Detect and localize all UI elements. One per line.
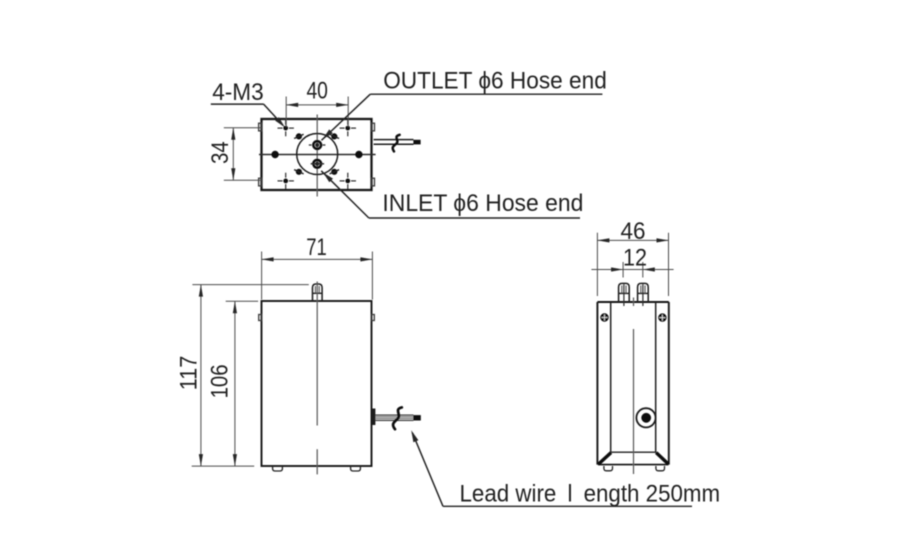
top view outlet port [309,141,326,149]
top view M3 hole top-right [340,120,356,136]
dimension 71 [262,234,373,300]
svg-text:106: 106 [206,364,233,398]
top view horizontal centerline [259,154,376,156]
dimension 12 [591,245,673,278]
side view left hose nipple [619,283,630,306]
front view lead wire with break [372,407,421,429]
svg-text:34: 34 [207,141,234,164]
side view top-left screw [601,314,608,321]
top view mounting tabs [259,123,375,186]
dimension 40 [286,77,348,127]
side view right hose nipple [638,283,649,306]
svg-text:12: 12 [623,245,647,272]
front view top fitting [313,284,323,301]
side view top-right screw [659,314,666,321]
top view pump head circle [297,134,338,175]
label Lead wire length 250mm with leader [411,430,720,507]
side view feet [604,466,665,471]
dimension 46 [597,218,668,296]
top view inlet port [311,160,324,168]
top view pump body [262,119,372,190]
svg-text:46: 46 [621,218,646,245]
svg-text:4-M3: 4-M3 [212,79,264,106]
front view feet [273,466,361,471]
top view right side hole [356,151,362,157]
side view inner edges [611,302,656,452]
front view pump body [262,301,372,466]
side view pump body [597,302,668,465]
top view head screws [294,134,339,175]
svg-text:40: 40 [306,77,328,104]
dimension 34 [207,128,262,181]
label INLET phi6 Hose end with leader [321,171,583,218]
side view base chamfer [599,452,669,464]
dimension 117 [176,285,309,467]
top view M3 hole top-left [278,120,294,136]
front view vertical centerline [316,282,318,475]
front view mounting tabs [259,315,375,321]
dimension 106 [206,301,258,466]
side view cable grommet [636,408,655,427]
side view vertical centerline [633,298,635,475]
top view M3 hole bottom-right [340,173,356,189]
svg-text:117: 117 [176,356,203,391]
svg-text:OUTLET ϕ6 Hose end: OUTLET ϕ6 Hose end [383,68,607,95]
top view left side hole [272,151,278,157]
svg-text:71: 71 [306,234,327,261]
label 4-M3 with leader [211,79,285,127]
top view vertical centerline [316,115,318,197]
top view M3 hole bottom-left [278,173,294,189]
svg-text:Lead wire l ength 250mm: Lead wire l ength 250mm [460,481,721,508]
label OUTLET phi6 Hose end with leader [322,68,607,141]
svg-text:INLET ϕ6 Hose end: INLET ϕ6 Hose end [382,190,583,217]
top view lead wire stub with break [374,135,421,152]
